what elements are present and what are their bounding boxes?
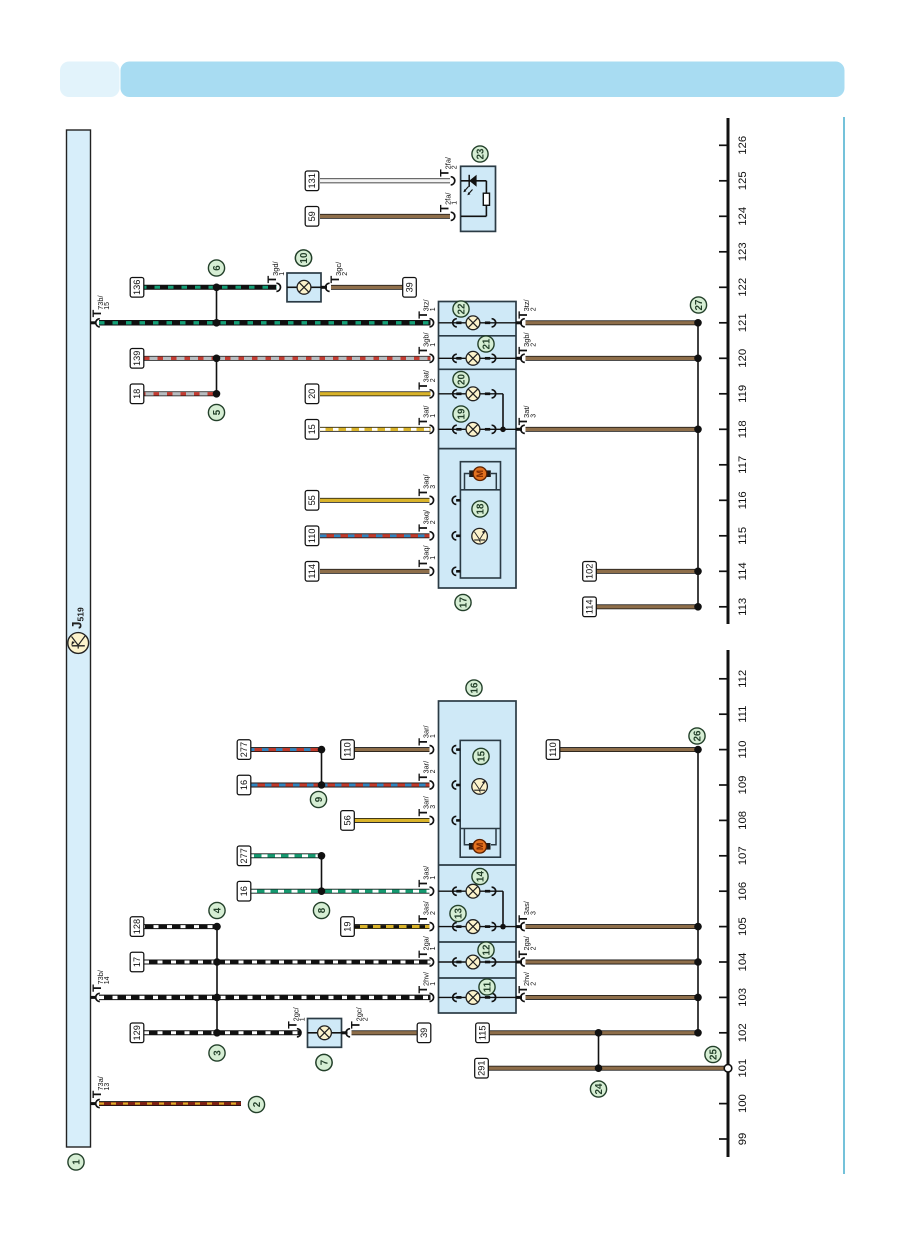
svg-text:20: 20 bbox=[307, 389, 317, 399]
svg-text:115: 115 bbox=[737, 527, 749, 545]
svg-text:25: 25 bbox=[709, 1049, 720, 1060]
svg-text:26: 26 bbox=[693, 730, 704, 741]
svg-text:T73a/13: T73a/13 bbox=[90, 1075, 111, 1098]
svg-text:15: 15 bbox=[307, 424, 317, 434]
svg-text:M: M bbox=[475, 843, 485, 851]
svg-text:136: 136 bbox=[132, 280, 142, 295]
svg-text:139: 139 bbox=[132, 351, 142, 366]
svg-text:121: 121 bbox=[737, 313, 749, 332]
svg-text:129: 129 bbox=[132, 1025, 142, 1040]
svg-text:110: 110 bbox=[343, 742, 353, 757]
svg-text:114: 114 bbox=[307, 564, 317, 579]
svg-text:114: 114 bbox=[737, 562, 749, 580]
svg-text:102: 102 bbox=[585, 564, 595, 579]
svg-text:T3ar/2: T3ar/2 bbox=[416, 760, 437, 781]
svg-text:T3aq/2: T3aq/2 bbox=[416, 509, 437, 532]
svg-text:T3as/1: T3as/1 bbox=[416, 865, 437, 887]
svg-text:110: 110 bbox=[307, 528, 317, 543]
svg-text:277: 277 bbox=[239, 742, 249, 757]
svg-text:T2fa/1: T2fa/1 bbox=[438, 192, 459, 213]
svg-text:17: 17 bbox=[132, 957, 142, 967]
svg-text:T3gd/1: T3gd/1 bbox=[265, 261, 286, 284]
svg-text:1: 1 bbox=[72, 1159, 83, 1165]
svg-text:115: 115 bbox=[478, 1025, 488, 1040]
svg-text:39: 39 bbox=[419, 1028, 429, 1038]
svg-text:11: 11 bbox=[483, 981, 494, 992]
svg-text:102: 102 bbox=[737, 1023, 749, 1042]
svg-text:22: 22 bbox=[457, 303, 468, 314]
svg-text:117: 117 bbox=[737, 456, 749, 474]
svg-text:19: 19 bbox=[457, 408, 468, 419]
svg-text:6: 6 bbox=[212, 265, 223, 271]
svg-text:8: 8 bbox=[317, 907, 328, 913]
svg-text:107: 107 bbox=[737, 846, 749, 865]
svg-text:17: 17 bbox=[459, 597, 470, 608]
svg-text:T73b/15: T73b/15 bbox=[90, 295, 111, 318]
svg-text:108: 108 bbox=[737, 811, 749, 830]
svg-text:T3gc/2: T3gc/2 bbox=[328, 261, 349, 283]
svg-text:101: 101 bbox=[737, 1059, 749, 1078]
svg-text:55: 55 bbox=[307, 495, 317, 505]
svg-text:5: 5 bbox=[212, 409, 223, 415]
svg-text:T73b/14: T73b/14 bbox=[90, 969, 111, 992]
svg-text:T3as/3: T3as/3 bbox=[516, 900, 537, 922]
svg-text:T2fa/2: T2fa/2 bbox=[438, 156, 459, 177]
svg-text:2: 2 bbox=[252, 1101, 263, 1107]
svg-text:13: 13 bbox=[454, 908, 465, 919]
svg-text:20: 20 bbox=[457, 374, 468, 385]
svg-text:T3gb/2: T3gb/2 bbox=[516, 332, 537, 355]
svg-text:T3at/2: T3at/2 bbox=[416, 369, 437, 390]
svg-text:116: 116 bbox=[737, 491, 749, 509]
svg-text:14: 14 bbox=[476, 871, 487, 882]
svg-text:T2gc/1: T2gc/1 bbox=[286, 1006, 307, 1028]
svg-text:114: 114 bbox=[585, 599, 595, 614]
svg-text:126: 126 bbox=[737, 136, 749, 155]
svg-text:103: 103 bbox=[737, 988, 749, 1007]
svg-text:T2ga/2: T2ga/2 bbox=[516, 935, 537, 958]
svg-text:110: 110 bbox=[737, 741, 749, 759]
svg-text:124: 124 bbox=[737, 207, 749, 226]
svg-text:T2hv/2: T2hv/2 bbox=[516, 971, 537, 993]
svg-text:109: 109 bbox=[737, 776, 749, 795]
svg-text:131: 131 bbox=[307, 173, 317, 188]
svg-text:T2gc/2: T2gc/2 bbox=[349, 1006, 370, 1028]
svg-text:T2hv/1: T2hv/1 bbox=[416, 971, 437, 993]
svg-text:120: 120 bbox=[737, 349, 749, 368]
svg-text:125: 125 bbox=[737, 171, 749, 190]
svg-text:T3aq/3: T3aq/3 bbox=[416, 474, 437, 497]
svg-text:99: 99 bbox=[737, 1133, 749, 1146]
svg-text:16: 16 bbox=[239, 886, 249, 896]
svg-text:T3tz/2: T3tz/2 bbox=[516, 298, 537, 318]
svg-text:T3at/1: T3at/1 bbox=[416, 405, 437, 426]
svg-text:M: M bbox=[475, 470, 485, 478]
svg-text:15: 15 bbox=[477, 750, 488, 761]
svg-text:27: 27 bbox=[694, 299, 705, 310]
svg-text:119: 119 bbox=[737, 385, 749, 403]
svg-text:3: 3 bbox=[213, 1050, 224, 1056]
svg-text:4: 4 bbox=[213, 907, 224, 913]
svg-text:T3ar/1: T3ar/1 bbox=[416, 724, 437, 745]
svg-text:T3tz/1: T3tz/1 bbox=[416, 298, 437, 318]
svg-text:105: 105 bbox=[737, 917, 749, 936]
svg-text:39: 39 bbox=[405, 282, 415, 292]
svg-text:110: 110 bbox=[548, 742, 558, 757]
svg-text:16: 16 bbox=[239, 780, 249, 790]
svg-text:291: 291 bbox=[477, 1061, 487, 1076]
svg-text:10: 10 bbox=[299, 252, 310, 263]
svg-text:23: 23 bbox=[476, 148, 487, 159]
svg-text:111: 111 bbox=[737, 706, 749, 723]
svg-text:277: 277 bbox=[239, 848, 249, 863]
svg-text:9: 9 bbox=[314, 796, 325, 802]
svg-text:104: 104 bbox=[737, 953, 749, 972]
svg-text:18: 18 bbox=[132, 389, 142, 399]
svg-text:16: 16 bbox=[470, 682, 481, 693]
svg-text:18: 18 bbox=[476, 503, 487, 514]
svg-text:59: 59 bbox=[307, 211, 317, 221]
svg-text:T3ar/3: T3ar/3 bbox=[416, 795, 437, 816]
svg-text:7: 7 bbox=[320, 1059, 331, 1065]
svg-text:T2ga/1: T2ga/1 bbox=[416, 935, 437, 958]
svg-text:24: 24 bbox=[594, 1083, 605, 1094]
svg-text:100: 100 bbox=[737, 1094, 749, 1113]
svg-text:21: 21 bbox=[482, 338, 493, 349]
svg-text:106: 106 bbox=[737, 882, 749, 901]
svg-text:T3aq/1: T3aq/1 bbox=[416, 545, 437, 568]
svg-text:T3gb/1: T3gb/1 bbox=[416, 332, 437, 355]
svg-text:T3as/2: T3as/2 bbox=[416, 900, 437, 922]
svg-text:56: 56 bbox=[343, 815, 353, 825]
svg-text:122: 122 bbox=[737, 278, 749, 297]
svg-text:123: 123 bbox=[737, 242, 749, 261]
svg-text:12: 12 bbox=[482, 944, 493, 955]
svg-text:113: 113 bbox=[737, 598, 749, 616]
svg-text:128: 128 bbox=[132, 919, 142, 934]
svg-text:T3at/3: T3at/3 bbox=[516, 405, 537, 426]
svg-text:19: 19 bbox=[343, 921, 353, 931]
svg-text:118: 118 bbox=[737, 420, 749, 438]
svg-text:112: 112 bbox=[737, 670, 749, 688]
